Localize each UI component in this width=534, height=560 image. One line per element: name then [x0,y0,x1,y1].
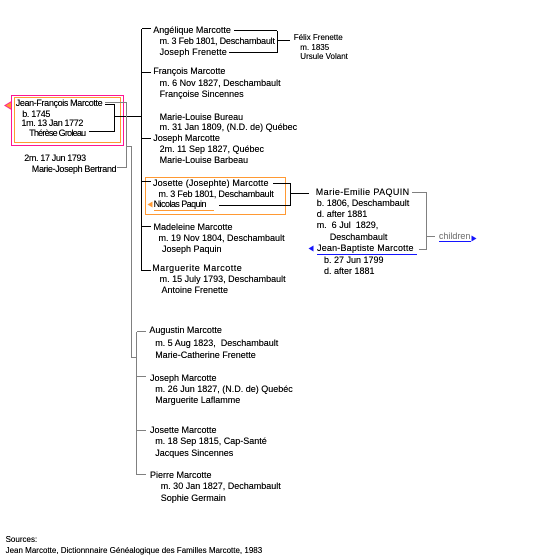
text: birth Jean-François [22,110,50,119]
wire from Angélique name [234,30,277,31]
wire from Thérèse Groleau [89,131,114,132]
text: child2 Augustin Marcotte [149,326,222,335]
marker triangle before Nicolas Paquin [147,201,153,208]
text: Jean-Baptiste death [324,267,375,276]
wire gray bracket Paquin couple [426,193,427,250]
wire tick Augustin [137,331,146,332]
text: Josette2 spouse [155,449,233,458]
text: child2 Joseph Marcotte [150,374,217,383]
wire tick Josette [142,181,152,182]
text: François spouse [160,90,244,99]
wire tick Angélique [142,28,152,29]
wire from Nicolas Paquin [219,205,291,206]
wire bracket Josette couple [290,184,291,206]
text: François marriage [160,79,281,88]
text: Marie-Emilie birth [317,199,410,208]
wire gray down to trunk2 [131,147,132,358]
wire to Félix Frenette [277,40,290,41]
text: child2 Pierre Marcotte [150,471,212,480]
highlight box Josette Marcotte (orange) [145,177,286,216]
underline Nicolas Paquin link [154,210,215,211]
text: Marie-Emilie marriage [317,221,379,230]
text: Joseph marriage1 [160,123,298,132]
text: Marie-Emilie death [317,210,368,219]
text: Joseph2 marriage [155,385,293,394]
marker triangle before Jean-Baptiste Marcotte [308,245,314,252]
wire gray join trunk2 [132,357,137,358]
text: Marie-Emilie marriage place [330,233,388,242]
underline children link [439,241,471,242]
text: sources citation [6,547,263,555]
text: child Madeleine Marcotte [154,223,233,232]
text: Madeleine marriage [159,234,285,243]
text: Pierre marriage [161,482,281,491]
text: child2 Josette Marcotte [150,426,217,435]
text: Félix spouse [300,53,348,61]
wire gray down to Bertrand [126,103,127,169]
wire gray to children link [427,236,435,237]
wire gray from Jean-François to 2nd marriage [105,102,127,103]
text: marriage1 date [22,119,84,128]
wire tick François [142,72,152,73]
wire couple1 to children trunk [114,116,142,117]
marker triangle left of Jean-François box [4,101,12,110]
text: child Joseph Marcotte [153,134,220,143]
text: child Angélique Marcotte [153,26,231,35]
text: Jean-Baptiste birth [324,256,384,265]
text: Joseph2 spouse [155,396,240,405]
text: child Marguerite Marcotte [152,264,242,273]
text: Joseph wife2 Marie-Louise Barbeau [160,156,249,165]
wire bracket Angélique couple [277,31,278,53]
marker triangle after children link [471,235,477,242]
text: sources heading [6,536,38,544]
text: Josette spouse Nicolas Paquin link [154,200,206,209]
wire tick Madeleine [142,226,152,227]
highlight box Jean-François Marcotte (outer pink) [11,95,124,147]
wire trunk first-marriage children [141,29,142,271]
text: Joseph wife1 Marie-Louise Bureau [160,113,244,122]
text: Josette marriage [158,190,273,199]
wire gray to Marie-Joseph Bertrand [117,167,127,168]
wire to Marie-Emilie PAQUIN [291,193,310,194]
text: child Josette Marcotte [153,179,269,188]
text: child François Marcotte [153,67,225,76]
wire from Josette name [273,183,291,184]
text: name Jean-François Marcotte [16,99,103,108]
wire tick Joseph2 [137,376,146,377]
text: Félix marriage [300,44,329,52]
highlight box Jean-François Marcotte (inner orange) [14,97,121,143]
text: grandchild Félix Frenette [294,34,343,42]
wire trunk second-marriage children [136,332,137,475]
wire gray from Jean-Baptiste name [419,249,427,250]
wire from Joseph Frenette [229,52,277,53]
text: Augustin marriage [155,339,278,348]
wire bracket couple1 [114,104,115,132]
text: grandchild spouse Marie-Emilie PAQUIN [316,188,410,197]
text: Marguerite spouse [162,286,229,295]
text: Marguerite marriage [160,275,286,284]
text: Madeleine spouse [162,245,222,254]
wire from Jean-François name [105,104,115,105]
underline Jean-Baptiste link [317,254,417,255]
wire tick Marguerite [142,270,152,271]
text: Angélique spouse [160,48,227,57]
wire gray from Marie-Emilie name [412,192,427,193]
text: children link [439,232,471,241]
wire tick Josette2 [137,430,146,431]
text: marriage2 date [24,154,86,163]
text: grandchild Jean-Baptiste Marcotte link [317,244,414,253]
wire tick Joseph [142,138,152,139]
text: Joseph marriage2 [160,145,264,154]
wire gray branch to children2 [127,146,133,147]
text: Josette2 marriage [155,437,267,446]
text: Pierre spouse [161,494,226,503]
text: Augustin spouse [155,351,256,360]
wire tick Pierre [137,474,146,475]
text: Angélique marriage [160,37,275,46]
text: spouse2 Marie-Joseph Bertrand [32,165,116,174]
text: spouse1 Thérèse Groleau [29,129,85,138]
